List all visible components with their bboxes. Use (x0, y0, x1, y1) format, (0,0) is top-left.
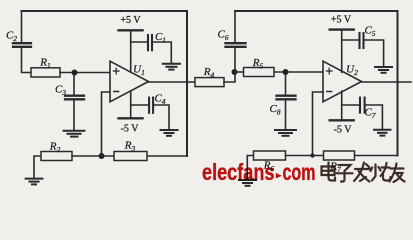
op-amp U2 (323, 61, 362, 102)
svg-text:com: com (283, 159, 316, 185)
svg-text:elecfans: elecfans (202, 159, 275, 185)
ground below R2 (26, 179, 43, 185)
resistor R3 (114, 152, 147, 161)
wire: C2 top vertical (21, 11, 23, 42)
capacitor C7 (360, 98, 365, 113)
ground below C8 (275, 130, 296, 136)
char fa (354, 163, 370, 182)
wire: R1 to op-amp + input (60, 72, 110, 74)
-5V rail bar U1 (119, 117, 143, 119)
svg-text:-5 V: -5 V (334, 125, 353, 136)
wire: C6 down to node (234, 48, 236, 70)
resistor R7 (324, 151, 355, 160)
capacitor C3 (65, 75, 84, 130)
wire: R2 left to ground (34, 156, 41, 178)
-5V rail bar U2 (330, 119, 354, 121)
wire: C1 to ground (153, 42, 172, 63)
wire: branch to C1 (131, 41, 147, 43)
capacitor C8 (277, 75, 296, 130)
wire: R5 to U2 + input (274, 71, 323, 73)
capacitor C5 (360, 33, 364, 48)
wire: left stage top rail (22, 10, 188, 12)
wire: C2 to R1 (22, 48, 32, 73)
resistor R1 (31, 68, 60, 77)
wire: right stage top rail (235, 10, 398, 12)
wire: R4 to stage2 input node (224, 72, 235, 82)
wire: U2 bottom to -5V (341, 91, 343, 120)
wire: +5V to U1 top (130, 30, 132, 72)
node B junction dot (99, 153, 105, 159)
U2 plus sign (326, 68, 332, 74)
wire: R2 to R3 (72, 155, 114, 157)
char you (390, 164, 405, 183)
wire: branch to C4 (131, 104, 148, 106)
wire: R6 left to ground (247, 156, 253, 180)
svg-text:+5 V: +5 V (331, 15, 352, 26)
svg-text:-5 V: -5 V (121, 124, 140, 135)
ground below C3 (64, 131, 85, 137)
op-amp U1 (110, 61, 149, 102)
node C junction dot (232, 69, 238, 75)
node D junction dot (283, 69, 289, 75)
ground right of C5 (375, 67, 392, 73)
wire: left stage feedback vertical (186, 11, 188, 156)
+5V rail bar U1 (119, 29, 143, 31)
wire: U2 - input riser (313, 92, 324, 156)
capacitor C2 (13, 43, 31, 47)
char shao (371, 163, 391, 181)
wire: C5 to ground (365, 40, 384, 66)
U1 plus sign (113, 68, 119, 74)
ground below C7 (374, 130, 391, 136)
wire: left stage bottom right segment (147, 155, 187, 157)
resistor R6 (254, 151, 286, 160)
wire: right stage feedback vertical (397, 11, 399, 156)
watermark elecfans.com (202, 159, 316, 185)
+5V rail bar U2 (330, 28, 354, 30)
U1 minus sign (114, 91, 119, 93)
wire: U2 output (362, 81, 412, 83)
capacitor C1 (148, 35, 152, 50)
svg-text:+5 V: +5 V (120, 15, 141, 26)
wire: branch to C7 (342, 104, 359, 106)
node A junction dot (72, 70, 78, 76)
wire: U1 bottom to -5V (130, 91, 132, 118)
resistor R2 (41, 152, 72, 161)
capacitor C6 (226, 43, 246, 47)
wire: C6 top vertical (234, 11, 236, 42)
char dian (322, 163, 336, 181)
wire: C4 to ground (154, 105, 169, 129)
ground right of C1 (163, 64, 180, 70)
char zi (337, 165, 353, 182)
U2 minus sign (327, 91, 332, 93)
ground below C4 (161, 130, 178, 136)
ground below R6 (239, 180, 256, 186)
wire: right stage bottom right segment (355, 155, 398, 157)
wire: R6 to R7 (286, 155, 324, 157)
wire: C7 to ground (366, 105, 383, 129)
node E junction dot (310, 153, 314, 157)
wire: op-amp - input riser (102, 92, 111, 156)
wire: node to R5 (235, 71, 244, 73)
capacitor C4 (149, 98, 153, 113)
wire: branch to C5 (342, 39, 359, 41)
resistor R5 (244, 68, 275, 77)
wire: U1 output (149, 81, 196, 83)
wire: +5V to U2 top (341, 30, 343, 73)
watermark Chinese characters 电子发烧友 (322, 163, 405, 183)
resistor R4 (195, 78, 224, 87)
